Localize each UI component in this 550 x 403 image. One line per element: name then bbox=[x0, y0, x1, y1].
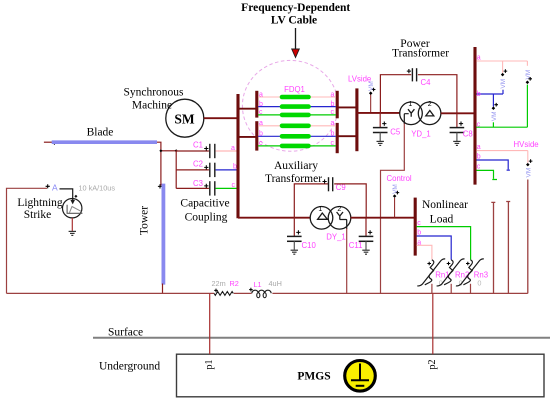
wire C9 branch left bbox=[294, 184, 328, 218]
wire FDQ1 phase c top bbox=[258, 114, 336, 116]
FDQ1 left bar 1 bbox=[255, 91, 258, 118]
HVside phase c bbox=[476, 170, 497, 179]
plus at tower top bbox=[158, 184, 162, 188]
NL phase c bbox=[417, 227, 471, 260]
NL bus bbox=[414, 198, 417, 256]
capacitor C5 bbox=[373, 113, 401, 145]
NL phase a bbox=[417, 245, 432, 259]
return line 1 bbox=[491, 202, 495, 293]
surface line bbox=[93, 337, 550, 339]
svg-text:c: c bbox=[477, 164, 481, 171]
bus connector upper bbox=[238, 108, 257, 110]
svg-text:C3: C3 bbox=[193, 179, 203, 188]
bus connector lower bbox=[238, 136, 257, 138]
capacitor C2 bbox=[176, 160, 215, 178]
transformer DY_1 bbox=[310, 206, 351, 242]
svg-text:1: 1 bbox=[408, 101, 412, 108]
svg-text:VM: VM bbox=[525, 70, 532, 80]
plus at blade bbox=[52, 141, 56, 145]
wire FDQ1 phase a top bbox=[258, 96, 336, 98]
wire p1 bbox=[209, 293, 211, 354]
svg-text:YD_1: YD_1 bbox=[411, 129, 431, 138]
HV phase c bbox=[476, 126, 527, 128]
wire lightning loop bbox=[7, 188, 48, 293]
svg-text:C2: C2 bbox=[193, 160, 203, 169]
svg-text:Capacitive: Capacitive bbox=[180, 198, 229, 210]
wire DY_1 to NL bus bbox=[351, 217, 416, 219]
VM probe Control bbox=[392, 184, 399, 218]
svg-text:b: b bbox=[259, 131, 263, 138]
wire SM bus to aux transformer bbox=[238, 217, 310, 219]
wire FDQ1 phase b top bbox=[258, 106, 336, 108]
svg-text:VM: VM bbox=[392, 184, 399, 194]
capacitor C3 bbox=[176, 179, 215, 196]
svg-text:c: c bbox=[259, 140, 263, 147]
nonlinear resistor Rn3 bbox=[456, 259, 488, 294]
cable FDQ1 segment a top bbox=[282, 95, 309, 100]
HV phase b bbox=[476, 93, 503, 95]
PMGS box bbox=[177, 354, 545, 397]
svg-text:R2: R2 bbox=[230, 279, 239, 288]
HVside phase b bbox=[476, 160, 510, 170]
svg-text:b: b bbox=[477, 154, 481, 161]
svg-text:c: c bbox=[259, 109, 263, 116]
svg-text:A: A bbox=[52, 183, 58, 193]
wire FDQ1 phase a bottom bbox=[258, 125, 336, 127]
svg-text:Machine: Machine bbox=[132, 100, 172, 112]
svg-text:VM: VM bbox=[491, 111, 498, 121]
HV phase a bbox=[476, 60, 527, 62]
cable FDQ1 segment b bottom bbox=[282, 134, 309, 139]
NL phase b bbox=[417, 236, 452, 260]
FDQ1 left bar 2 bbox=[255, 121, 258, 150]
svg-text:Frequency-Dependent: Frequency-Dependent bbox=[241, 2, 350, 14]
svg-text:VM: VM bbox=[368, 81, 375, 91]
svg-text:Synchronous: Synchronous bbox=[123, 87, 184, 99]
svg-text:Surface: Surface bbox=[108, 327, 143, 339]
svg-text:b: b bbox=[259, 101, 263, 108]
svg-text:c: c bbox=[331, 109, 335, 116]
VM probe HVside a bbox=[525, 151, 532, 178]
FDQ1 dashed ellipse bbox=[242, 60, 338, 151]
junction dot at tower branch bbox=[159, 149, 162, 152]
wire SM to bus bbox=[204, 117, 238, 119]
svg-text:2: 2 bbox=[337, 206, 341, 213]
svg-text:22m: 22m bbox=[212, 279, 226, 288]
blade stub wire bbox=[44, 141, 53, 143]
svg-text:C5: C5 bbox=[390, 128, 401, 137]
VM probe b-c bbox=[491, 94, 498, 127]
capacitor rail bbox=[175, 150, 177, 188]
svg-text:Tower: Tower bbox=[139, 206, 151, 235]
svg-text:Auxiliary: Auxiliary bbox=[274, 160, 318, 172]
wire branch to capacitor rail bbox=[161, 150, 176, 152]
wire FDQ1 phase c bottom bbox=[258, 145, 336, 147]
svg-text:c: c bbox=[232, 182, 236, 189]
svg-text:b: b bbox=[331, 131, 335, 138]
svg-text:C10: C10 bbox=[302, 241, 317, 250]
FDQ1 right bar 1 bbox=[336, 91, 339, 119]
svg-text:c: c bbox=[331, 140, 335, 147]
svg-text:a: a bbox=[231, 145, 235, 152]
svg-text:p1: p1 bbox=[204, 360, 215, 370]
synchronous machine SM bbox=[166, 99, 204, 137]
nonlinear resistor Rn1 bbox=[417, 259, 449, 294]
svg-text:b: b bbox=[331, 101, 335, 108]
cable FDQ1 segment a bottom bbox=[282, 124, 309, 129]
svg-text:b: b bbox=[233, 164, 237, 171]
svg-text:Load: Load bbox=[430, 213, 454, 225]
svg-text:Transformer: Transformer bbox=[392, 48, 449, 60]
wire transformer to HV bus bbox=[441, 112, 475, 114]
wire C4 branch left bbox=[380, 75, 411, 113]
capacitor C11 bbox=[349, 218, 374, 255]
svg-text:DY_1: DY_1 bbox=[326, 232, 346, 241]
plus at A bbox=[46, 184, 50, 188]
HV bus bbox=[473, 47, 476, 185]
svg-text:10 kA/10us: 10 kA/10us bbox=[79, 183, 116, 192]
svg-text:Control: Control bbox=[387, 174, 412, 183]
svg-text:LV Cable: LV Cable bbox=[271, 15, 317, 27]
svg-text:VM: VM bbox=[500, 79, 507, 89]
svg-text:Transformer: Transformer bbox=[265, 173, 322, 185]
lightning source U-LS bbox=[62, 195, 82, 218]
wire HVside a return bbox=[527, 180, 529, 294]
svg-text:L1: L1 bbox=[254, 280, 262, 289]
DY_1 neutral to ground bbox=[340, 220, 347, 230]
svg-text:FDQ1: FDQ1 bbox=[284, 85, 305, 94]
SM bus bbox=[236, 94, 239, 218]
svg-text:C4: C4 bbox=[421, 78, 432, 87]
svg-text:a: a bbox=[259, 91, 263, 98]
capacitor C1 bbox=[176, 141, 215, 159]
svg-text:Nonlinear: Nonlinear bbox=[422, 199, 468, 211]
YD_1 neutral to ground bbox=[404, 114, 408, 124]
svg-text:b: b bbox=[417, 230, 421, 237]
title arrow bbox=[292, 28, 300, 58]
capacitor C4 bbox=[407, 68, 431, 87]
ground lightning bbox=[69, 231, 76, 235]
transformer YD_1 bbox=[400, 101, 441, 138]
tower bottom stub bbox=[162, 284, 164, 294]
wire LV bus to transformer bbox=[357, 112, 400, 114]
svg-text:a: a bbox=[477, 144, 481, 151]
wire p2 bbox=[432, 293, 434, 354]
nonlinear resistor Rn2 bbox=[437, 259, 470, 294]
svg-text:C11: C11 bbox=[349, 241, 363, 250]
resistor R2 bbox=[212, 279, 239, 295]
tower bbox=[161, 184, 165, 285]
cable FDQ1 segment b top bbox=[282, 104, 309, 109]
right connectors to LV bus bbox=[337, 106, 357, 108]
inductor L1 bbox=[249, 279, 282, 298]
svg-text:PMGS: PMGS bbox=[297, 371, 330, 383]
bottom ground bus bbox=[7, 292, 528, 294]
VM probe a-c bbox=[525, 61, 532, 127]
blade bbox=[52, 140, 157, 144]
wire C9 branch right bbox=[334, 184, 366, 218]
svg-text:Blade: Blade bbox=[87, 127, 114, 139]
svg-text:a: a bbox=[331, 120, 335, 127]
svg-text:a: a bbox=[477, 55, 481, 62]
svg-text:4uH: 4uH bbox=[269, 279, 282, 288]
svg-text:a: a bbox=[331, 91, 335, 98]
wire b C2 bbox=[216, 169, 238, 171]
cable FDQ1 segment c bottom bbox=[282, 144, 309, 149]
svg-text:HVside: HVside bbox=[514, 140, 539, 149]
wire C4 branch right bbox=[418, 75, 457, 114]
svg-text:C8: C8 bbox=[463, 130, 473, 139]
wire blade to tower bbox=[157, 142, 161, 185]
svg-text:c: c bbox=[477, 121, 481, 128]
cable FDQ1 segment c top bbox=[282, 113, 309, 118]
svg-text:1: 1 bbox=[318, 206, 322, 213]
svg-text:Coupling: Coupling bbox=[185, 212, 228, 224]
svg-text:2: 2 bbox=[428, 101, 432, 108]
svg-text:Underground: Underground bbox=[99, 361, 160, 373]
svg-text:p2: p2 bbox=[427, 360, 438, 370]
svg-text:VM: VM bbox=[525, 168, 532, 178]
FDQ1 right bar 2 bbox=[336, 123, 339, 153]
title Frequency-Dependent LV Cable bbox=[241, 2, 350, 27]
PMGS earth symbol bbox=[345, 361, 376, 392]
capacitor C8 bbox=[450, 113, 473, 145]
svg-text:SM: SM bbox=[174, 112, 195, 127]
junction dot at capacitor rail bbox=[175, 149, 178, 152]
HVside phase a bbox=[476, 150, 527, 152]
VM probe a-b bbox=[500, 61, 507, 94]
svg-text:Strike: Strike bbox=[24, 209, 51, 221]
wire c C3 bbox=[216, 187, 238, 189]
return line 2 bbox=[506, 202, 510, 294]
svg-text:a: a bbox=[259, 120, 263, 127]
svg-text:Lightning: Lightning bbox=[17, 197, 63, 209]
LV bus bbox=[355, 88, 358, 151]
source ground lead bbox=[71, 218, 73, 231]
wire a C1 bbox=[216, 150, 238, 152]
capacitor C10 bbox=[287, 218, 316, 255]
capacitor C9 bbox=[323, 177, 346, 192]
svg-text:0: 0 bbox=[477, 279, 481, 288]
svg-text:C1: C1 bbox=[193, 141, 203, 150]
svg-text:c: c bbox=[417, 220, 421, 227]
wire FDQ1 phase b bottom bbox=[258, 135, 336, 137]
voltmeter VM LVside bbox=[368, 81, 375, 113]
wire A to source bbox=[60, 189, 73, 200]
svg-text:a: a bbox=[417, 239, 421, 246]
svg-text:b: b bbox=[477, 91, 481, 98]
